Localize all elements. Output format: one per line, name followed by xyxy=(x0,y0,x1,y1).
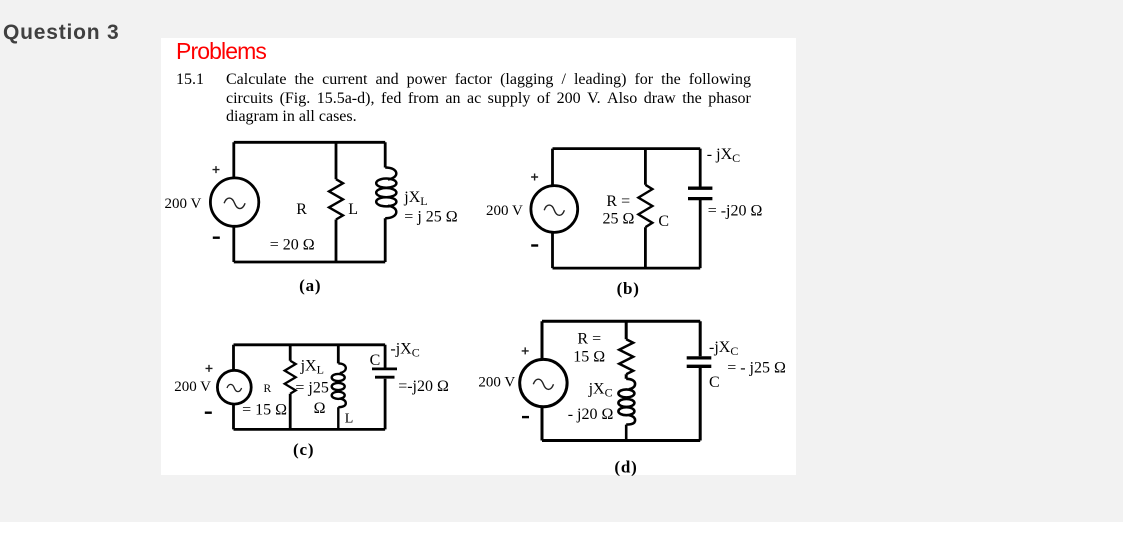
svg-text:jXL: jXL xyxy=(300,357,324,376)
svg-text:-jXC: -jXC xyxy=(390,340,419,359)
svg-text:= - j25 Ω: = - j25 Ω xyxy=(727,359,786,376)
svg-text:=-j20 Ω: =-j20 Ω xyxy=(398,378,449,395)
svg-text:jXL: jXL xyxy=(403,189,427,208)
svg-text:- j20 Ω: - j20 Ω xyxy=(568,406,614,423)
svg-text:25 Ω: 25 Ω xyxy=(603,210,635,227)
svg-text:Ω: Ω xyxy=(314,400,326,417)
svg-text:C: C xyxy=(709,374,720,391)
svg-text:200 V: 200 V xyxy=(165,196,202,212)
svg-text:C: C xyxy=(658,213,669,230)
svg-text:- jXC: - jXC xyxy=(707,146,740,165)
svg-text:L: L xyxy=(348,201,358,218)
svg-text:L: L xyxy=(345,411,354,426)
svg-text:jXC: jXC xyxy=(588,381,613,400)
svg-text:R: R xyxy=(264,383,272,395)
svg-text:200 V: 200 V xyxy=(174,379,211,395)
svg-text:C: C xyxy=(370,352,381,369)
svg-text:15 Ω: 15 Ω xyxy=(573,349,605,366)
svg-text:(d): (d) xyxy=(614,458,637,477)
svg-text:R =: R = xyxy=(577,331,601,348)
svg-text:= j 25 Ω: = j 25 Ω xyxy=(404,209,457,226)
svg-text:= 15 Ω: = 15 Ω xyxy=(242,402,287,419)
svg-text:-jXC: -jXC xyxy=(709,339,738,358)
svg-text:= j25: = j25 xyxy=(295,379,328,396)
svg-text:200 V: 200 V xyxy=(486,203,523,219)
svg-text:R =: R = xyxy=(606,193,630,210)
svg-text:R: R xyxy=(296,201,307,218)
svg-text:(b): (b) xyxy=(617,279,640,298)
svg-text:= 20 Ω: = 20 Ω xyxy=(270,237,315,254)
svg-text:(a): (a) xyxy=(299,276,321,295)
svg-text:200 V: 200 V xyxy=(478,374,515,390)
svg-text:(c): (c) xyxy=(293,440,314,459)
svg-text:= -j20 Ω: = -j20 Ω xyxy=(708,202,763,219)
